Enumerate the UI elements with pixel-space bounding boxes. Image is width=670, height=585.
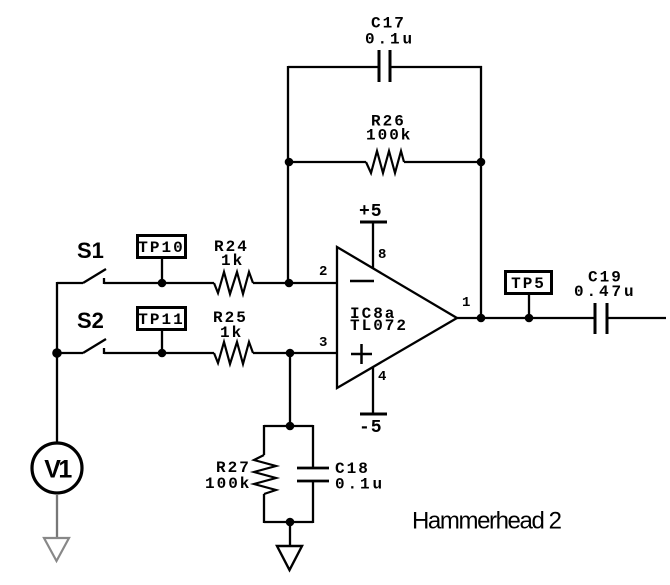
svg-text:0.1u: 0.1u (365, 31, 415, 49)
svg-text:+5: +5 (359, 202, 383, 222)
power +5 (359, 202, 387, 268)
node junction pin3 RC branch (286, 349, 295, 358)
node junction output feedback (477, 314, 486, 323)
resistor R24 (214, 238, 253, 294)
wire C18 branch bottom (312, 481, 314, 523)
switch S2 (57, 308, 106, 354)
svg-text:V1: V1 (44, 456, 72, 484)
svg-text:100k: 100k (366, 127, 412, 145)
node junction TP10 (158, 279, 167, 288)
svg-text:3: 3 (319, 335, 327, 351)
wire R26 left (289, 161, 366, 163)
power -5 (359, 367, 387, 438)
ground (RC network) (277, 546, 302, 570)
wire R24 to opamp pin2 (253, 282, 337, 284)
svg-text:1: 1 (462, 295, 470, 311)
node junction TP5 (525, 314, 534, 323)
svg-text:S2: S2 (77, 308, 104, 333)
wire feedback left vertical (287, 66, 289, 284)
wire output right (608, 317, 666, 319)
svg-text:TP5: TP5 (511, 275, 546, 293)
resistor R27 (205, 455, 276, 494)
svg-text:0.47u: 0.47u (574, 283, 637, 301)
ground (V1) (44, 538, 69, 561)
wire top feedback left segment (288, 66, 378, 68)
wire R27 branch bottom (263, 494, 265, 523)
wire C18 branch top (312, 425, 314, 468)
svg-text:Hammerhead 2: Hammerhead 2 (412, 508, 562, 535)
svg-text:S1: S1 (77, 238, 104, 263)
wire R26 right (404, 161, 481, 163)
testpoint TP5 (506, 272, 552, 319)
wire V1 to ground (56, 494, 58, 538)
wire S2 to R25 (104, 352, 214, 354)
wire pin3 down to RC (289, 353, 291, 426)
node junction R26 right (477, 158, 486, 167)
resistor R26 (366, 113, 412, 174)
node junction RC top (286, 422, 295, 431)
testpoint TP10 (138, 236, 186, 284)
svg-text:TP11: TP11 (138, 311, 184, 329)
svg-text:1k: 1k (221, 252, 244, 270)
wire left rail (56, 282, 58, 442)
svg-text:0.1u: 0.1u (335, 476, 385, 494)
op-amp U IC8a (319, 247, 470, 388)
wire R25 to opamp pin3 (253, 352, 337, 354)
svg-text:-5: -5 (359, 418, 383, 438)
wire top feedback right segment (391, 66, 482, 68)
node junction rail S2 (52, 348, 62, 358)
node junction R26 left (285, 158, 294, 167)
svg-text:TL072: TL072 (350, 317, 408, 335)
node junction TP11 (158, 349, 167, 358)
resistor R25 (213, 309, 253, 364)
capacitor C18 (297, 460, 385, 494)
svg-text:1k: 1k (220, 324, 243, 342)
svg-text:8: 8 (378, 247, 386, 263)
switch S1 (57, 238, 106, 284)
wire feedback right vertical (480, 66, 482, 318)
wire R27 branch top (263, 425, 265, 455)
svg-text:100k: 100k (205, 475, 251, 493)
source V1 (32, 443, 82, 493)
svg-text:TP10: TP10 (138, 239, 184, 257)
capacitor C19 (574, 269, 637, 335)
wire S1 to R24 (104, 282, 214, 284)
wire RC top bar (264, 425, 313, 427)
svg-text:4: 4 (378, 369, 386, 385)
wire RC to ground (289, 522, 291, 546)
node junction feedback pin2 (285, 279, 294, 288)
svg-text:2: 2 (319, 264, 327, 280)
capacitor C17 (365, 15, 415, 83)
wire output left (457, 317, 594, 319)
testpoint TP11 (138, 308, 186, 354)
wire RC bottom bar (264, 521, 313, 523)
node junction RC bottom (286, 518, 295, 527)
